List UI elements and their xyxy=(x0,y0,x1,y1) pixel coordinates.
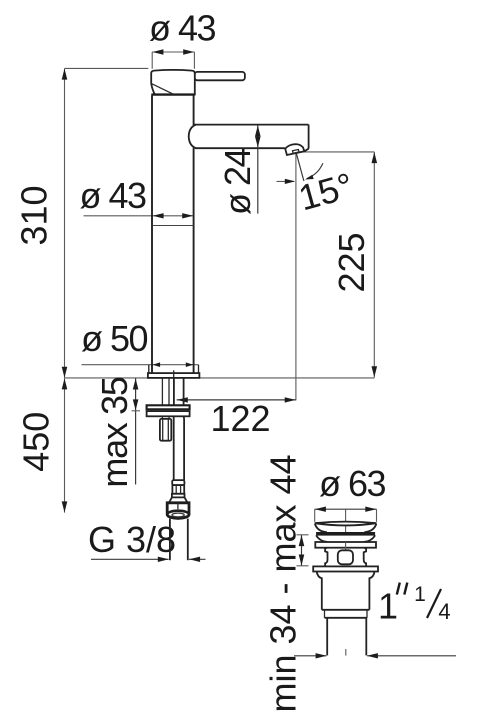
svg-text:G 3/8: G 3/8 xyxy=(88,519,176,560)
angle 15 deg tilted ray xyxy=(296,153,304,181)
svg-text:ø 43: ø 43 xyxy=(149,7,216,48)
svg-text:max 35: max 35 xyxy=(94,377,135,488)
drain centerline mid xyxy=(345,542,347,550)
dimension ø43 mid leader and arrows xyxy=(84,213,194,218)
dimension label 1 inch 1/4 xyxy=(378,583,451,627)
faucet handle lever xyxy=(195,72,245,80)
base plate flange xyxy=(148,373,200,378)
drain bell xyxy=(317,572,375,610)
drain funnel lower xyxy=(316,535,375,542)
hose braid section xyxy=(172,485,184,494)
svg-text:min 34 - max 44: min 34 - max 44 xyxy=(263,454,304,712)
svg-text:ø 24: ø 24 xyxy=(217,149,258,216)
svg-text:1: 1 xyxy=(414,583,426,606)
svg-text:122: 122 xyxy=(210,398,270,439)
drain centerline top xyxy=(345,509,347,532)
svg-text:225: 225 xyxy=(331,232,372,292)
dimension ø50 leader and arrows xyxy=(82,362,199,373)
faucet spout xyxy=(189,125,309,149)
dimension 310 left xyxy=(62,68,149,378)
svg-text:1: 1 xyxy=(378,586,398,627)
faucet body xyxy=(152,95,194,373)
dimension G 3/8 xyxy=(91,557,206,562)
svg-text:ø 50: ø 50 xyxy=(81,318,148,359)
drain thread groove xyxy=(322,610,370,618)
extension line base plate level xyxy=(65,377,375,379)
svg-text:ø 43: ø 43 xyxy=(80,175,147,216)
svg-text:450: 450 xyxy=(16,412,57,472)
hose end tube G3/8 xyxy=(170,519,188,561)
drain upper flange xyxy=(315,542,376,548)
spout aerator xyxy=(285,144,304,155)
svg-text:310: 310 xyxy=(14,185,55,245)
angle 15 deg horizontal leader arrow xyxy=(277,179,296,184)
dimension 225 right xyxy=(372,152,378,378)
faucet head xyxy=(151,70,195,95)
drain gasket dark band xyxy=(316,532,375,536)
extension line aerator vertical xyxy=(295,153,297,401)
faucet head bottom edge xyxy=(151,93,195,95)
clamp washer dark xyxy=(147,405,190,409)
dimension 1 inch 1/4 xyxy=(294,653,456,658)
drain mid body sides xyxy=(325,548,366,567)
supply hose upper xyxy=(174,378,184,405)
threaded stud upper xyxy=(162,378,169,405)
stud nut xyxy=(160,419,171,441)
hose cone xyxy=(169,497,188,502)
threaded stud lower xyxy=(162,416,169,419)
drain overflow window xyxy=(338,550,353,564)
drain cap funnel upper xyxy=(315,524,376,533)
faucet head lever diagonal xyxy=(151,84,172,94)
dimension max35 xyxy=(132,378,140,484)
supply hose lower xyxy=(174,416,184,480)
drain cap lens xyxy=(315,522,377,526)
faucet body seam line xyxy=(153,225,194,227)
dimension 450 left xyxy=(62,378,68,512)
clamp bracket xyxy=(147,411,190,416)
extension line aerator to 225 xyxy=(297,151,375,153)
base plate centerline xyxy=(173,370,175,378)
hose crimp collar xyxy=(172,480,184,485)
hose collar 2 xyxy=(172,494,185,498)
angle 15 deg arc xyxy=(305,163,323,179)
svg-text:ø 63: ø 63 xyxy=(319,463,386,504)
drain lower flange xyxy=(313,566,378,571)
svg-text:4: 4 xyxy=(438,599,450,624)
dimension 122 xyxy=(177,397,296,402)
drain centerline bottom xyxy=(345,649,347,656)
base plate upper rim xyxy=(149,365,199,373)
dimension ø24 spout xyxy=(255,125,261,213)
dimension line ø43 top xyxy=(152,49,194,69)
drain tailpiece thread xyxy=(327,618,366,656)
dimension line ø63 xyxy=(315,507,377,522)
hose nut xyxy=(167,503,189,519)
dimension min34 max44 xyxy=(297,535,309,566)
